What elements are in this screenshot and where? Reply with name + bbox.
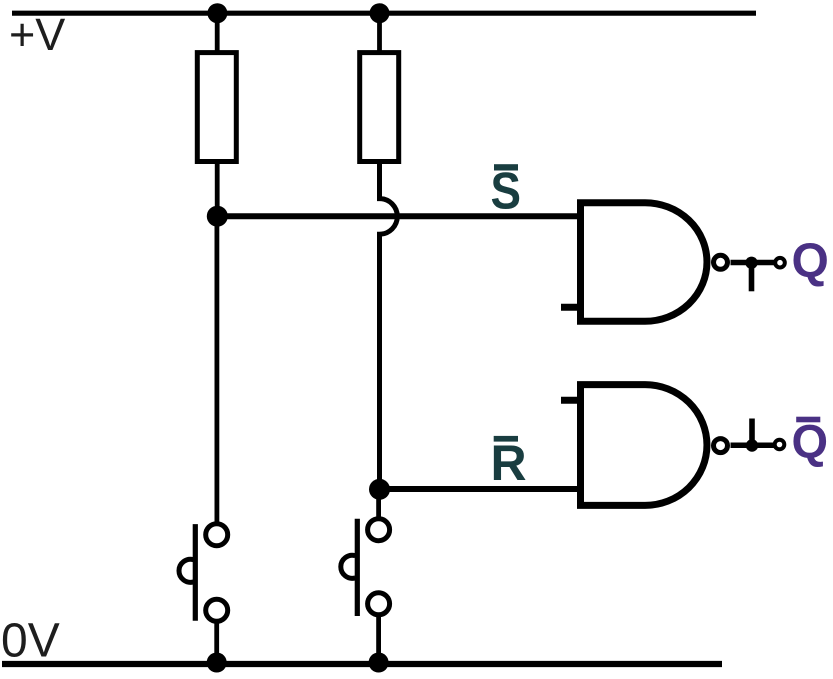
junction dot on U2 output	[746, 439, 758, 451]
feedback stub down from U1 output	[749, 263, 755, 292]
feedback stub up from U2 output	[749, 419, 755, 446]
open terminal circle Q	[775, 258, 785, 268]
junction on 0V rail at SW1	[207, 653, 227, 673]
switch SW1 upper contact circle	[206, 524, 228, 546]
wire +V rail to resistor R2	[377, 13, 382, 53]
junction dot on U1 output	[745, 257, 757, 269]
open terminal circle Q-bar	[775, 440, 785, 450]
switch SW1 actuator bar	[193, 524, 198, 621]
+V supply rail	[12, 11, 756, 16]
switch SW2 actuator bar	[355, 519, 360, 616]
Q-bar label overbar	[796, 417, 820, 423]
NAND U2 upper input stub	[561, 397, 580, 404]
svg-text:Q: Q	[792, 415, 829, 468]
svg-text:0V: 0V	[1, 615, 60, 668]
NAND U1 output bubble	[714, 255, 728, 269]
switch SW2 upper contact circle	[368, 519, 390, 541]
wire node R down to switch SW2	[376, 489, 381, 518]
wire SW2 to 0V rail	[376, 615, 381, 663]
junction on +V rail at R2	[370, 3, 390, 23]
switch SW1 push-button bump	[179, 559, 194, 582]
wire +V rail to resistor R1	[215, 13, 220, 53]
wire node S down to switch SW1	[214, 216, 219, 523]
wire U2 output	[731, 442, 776, 448]
wire SW1 to 0V rail	[214, 622, 219, 663]
svg-text:+V: +V	[9, 9, 65, 60]
svg-text:Q: Q	[792, 235, 829, 288]
resistor R2	[360, 53, 399, 162]
S-bar label overbar	[494, 164, 518, 170]
wire node R to NAND U2 input	[380, 486, 581, 492]
junction on +V rail at R1	[207, 3, 227, 23]
switch SW2 lower contact circle	[368, 593, 390, 615]
NAND gate U1 body	[581, 203, 707, 322]
0V supply rail	[2, 661, 722, 667]
NAND gate U2 body	[581, 385, 707, 506]
NAND U2 output bubble	[714, 439, 728, 453]
node R junction dot	[369, 479, 390, 500]
switch SW1 lower contact circle	[206, 599, 228, 621]
wire node S to NAND U1 input	[217, 213, 580, 219]
wire resistor R1 to node S	[215, 161, 220, 216]
svg-text:S: S	[491, 163, 522, 221]
node S junction dot	[207, 206, 228, 227]
svg-text:R: R	[491, 435, 527, 491]
wire U1 output	[731, 260, 776, 266]
switch SW2 push-button bump	[341, 555, 356, 578]
NAND U1 lower input stub	[561, 304, 580, 311]
resistor R1	[197, 53, 236, 162]
wire resistor R2 down with hop over S wire, to node R	[380, 161, 398, 489]
R-bar label overbar	[494, 436, 518, 442]
junction on 0V rail at SW2	[369, 653, 389, 673]
